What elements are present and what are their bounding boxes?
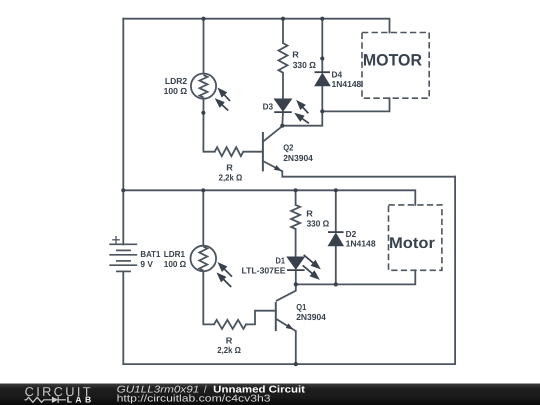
wire D2 top lead — [335, 190, 337, 231]
Q1 emitter arrow — [286, 323, 294, 329]
junction D2 anode / motor2 return — [334, 282, 338, 286]
label R 2,2k bottom — [217, 336, 241, 356]
resistor R 2,2k (top) — [215, 147, 244, 156]
junction left rail / middle rail — [121, 188, 125, 192]
svg-text:1N4148: 1N4148 — [346, 238, 376, 248]
label D1 — [242, 255, 286, 275]
wire left rail lower — [122, 271, 124, 364]
svg-text:2,2k Ω: 2,2k Ω — [217, 345, 241, 355]
junction top rail / D4 — [320, 17, 324, 21]
LDR2 arrows — [217, 89, 231, 110]
wire D4 bottom lead — [321, 85, 323, 111]
svg-text:R: R — [226, 163, 233, 173]
battery BAT1 — [109, 244, 137, 271]
svg-text:LDR1: LDR1 — [164, 249, 185, 259]
label D4 — [332, 70, 362, 89]
svg-text:BAT1: BAT1 — [140, 249, 160, 259]
svg-text:2,2k Ω: 2,2k Ω — [219, 172, 243, 182]
label Q1 — [296, 302, 326, 322]
battery plus sign — [112, 236, 120, 244]
D1 arrows — [303, 255, 319, 278]
wire node B to motor2 — [296, 270, 416, 284]
wire R330a to D3 — [282, 73, 284, 100]
logo resistor-diode line — [24, 397, 66, 403]
wire R330b to D1 — [295, 229, 297, 257]
diode D4 — [315, 72, 331, 85]
Q2 emitter arrow — [274, 165, 282, 171]
LED D1 — [287, 257, 305, 270]
wire D2 bottom lead — [335, 246, 337, 285]
photoresistor LDR2 — [191, 74, 216, 99]
svg-text:1N4148: 1N4148 — [332, 79, 362, 89]
junction bottom rail / Q1 emitter — [294, 362, 298, 366]
junction LDR2 bottom wire — [201, 111, 205, 115]
svg-text:R: R — [226, 336, 233, 346]
wire Q2 emitter run — [282, 171, 455, 177]
svg-text:100 Ω: 100 Ω — [164, 259, 186, 269]
svg-text:D3: D3 — [263, 101, 274, 111]
svg-text:http://circuitlab.com/c4cv3h3: http://circuitlab.com/c4cv3h3 — [117, 394, 272, 405]
label R 330 top — [292, 50, 316, 70]
label Q2 — [283, 143, 313, 163]
svg-text:2N3904: 2N3904 — [296, 312, 326, 322]
svg-text:LTL-307EE: LTL-307EE — [242, 266, 286, 276]
label LDR2 — [164, 76, 188, 96]
svg-text:Q1: Q1 — [296, 302, 306, 312]
diode D2 — [328, 232, 344, 245]
svg-text:330 Ω: 330 Ω — [307, 219, 330, 229]
svg-text:R: R — [306, 209, 313, 219]
LDR1 arrows — [218, 264, 232, 287]
junction top rail / R330 top — [281, 17, 285, 21]
svg-text:2N3904: 2N3904 — [283, 153, 313, 163]
wire Q1 emitter elbow — [294, 330, 296, 332]
wire Q1 base jog — [246, 311, 276, 325]
svg-text:LAB: LAB — [67, 395, 91, 405]
resistor R 2,2k (bottom) — [214, 320, 246, 329]
svg-text:D1: D1 — [276, 255, 286, 265]
wire D4 node to motor1 — [322, 98, 389, 111]
junction D4 anode / motor1 return — [320, 109, 324, 113]
transistor Q2 — [263, 126, 282, 171]
label D2 — [346, 229, 376, 248]
junction middle rail / R330 bottom — [294, 188, 298, 192]
wire Q2 base — [243, 151, 263, 153]
junction middle rail / LDR1 — [201, 188, 205, 192]
motor M2 box — [389, 205, 442, 270]
wire left rail upper — [122, 19, 124, 245]
svg-text:330 Ω: 330 Ω — [293, 60, 316, 70]
wire LDR1 bottom lead — [203, 272, 214, 325]
junction D4 cathode wire — [320, 56, 324, 60]
label R 330 bottom — [306, 209, 329, 229]
wire bottom rail — [123, 363, 455, 365]
wire R330a top lead — [282, 19, 284, 43]
node A D3 cathode / Q2 collector — [280, 124, 284, 128]
logo diode triangle — [52, 397, 58, 403]
wire Q1 emitter to rail — [295, 331, 297, 364]
svg-text:Motor: Motor — [389, 235, 435, 252]
D3 arrows — [296, 102, 309, 124]
label LDR1 — [164, 249, 186, 269]
wire top rail — [123, 19, 389, 33]
svg-text:R: R — [292, 50, 299, 60]
junction top rail / LDR2 — [201, 17, 205, 21]
photoresistor LDR1 — [191, 246, 217, 272]
wire LDR2 top lead — [203, 19, 205, 74]
label R 2,2k top — [219, 163, 243, 183]
label BAT1 — [140, 249, 160, 269]
wire R330b top lead — [295, 190, 297, 205]
wire D3 to node A — [281, 112, 284, 126]
wire node A to D4 node — [282, 111, 322, 125]
resistor R 330 (top) — [279, 43, 288, 73]
wire LDR1 top lead — [202, 190, 204, 245]
transistor Q1 — [276, 284, 296, 331]
wire middle rail — [123, 190, 415, 205]
wire right rail — [454, 177, 456, 364]
svg-text:100 Ω: 100 Ω — [164, 86, 188, 96]
svg-text:MOTOR: MOTOR — [363, 52, 422, 70]
LED D3 — [274, 99, 292, 112]
wire LDR2 bottom lead — [203, 99, 214, 152]
junction middle rail / D2 — [334, 188, 338, 192]
svg-text:LDR2: LDR2 — [165, 76, 187, 86]
wire D1 to node B — [295, 270, 297, 284]
node B D1 cathode / Q1 collector — [294, 282, 298, 286]
motor M1 box — [362, 33, 429, 99]
footer bar — [0, 384, 540, 405]
wire D4 top lead — [321, 19, 323, 72]
resistor R 330 (bottom) — [291, 205, 300, 229]
svg-text:Q2: Q2 — [283, 143, 293, 153]
svg-text:9 V: 9 V — [140, 259, 153, 269]
